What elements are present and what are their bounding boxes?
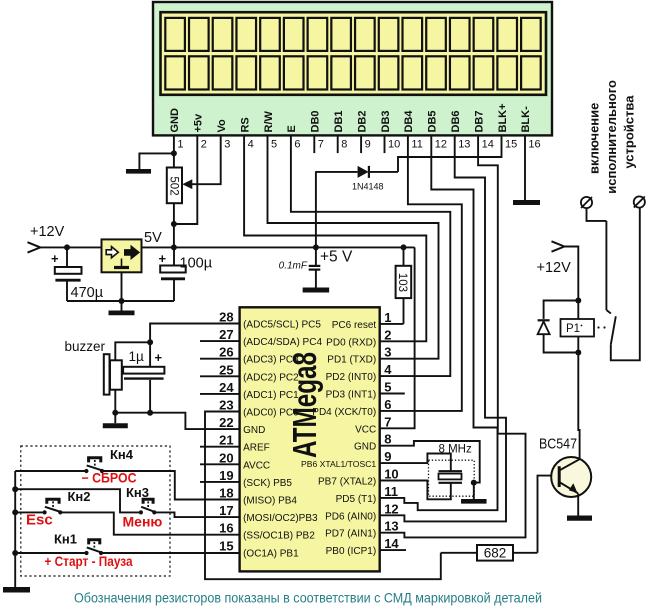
node 1u ground (147, 410, 153, 416)
svg-text:6: 6 (294, 139, 300, 151)
wire Kn3 to MCU pin17 (154, 512, 239, 517)
LCD module LCD1 outer body (153, 2, 552, 135)
capacitor C1 470u (51, 247, 104, 301)
svg-text:Кн1: Кн1 (54, 532, 77, 547)
switch Kn2 (Esc) (43, 499, 63, 514)
svg-text:PD3 (INT1): PD3 (INT1) (326, 390, 377, 401)
svg-text:5V: 5V (144, 230, 162, 246)
svg-text:28: 28 (219, 310, 233, 325)
node regulator ground (119, 298, 125, 304)
wire Kn1 to MCU pin15 (101, 552, 240, 554)
svg-text:14: 14 (482, 139, 494, 151)
relay contact (606, 208, 639, 360)
svg-text:AVCC: AVCC (243, 460, 270, 471)
svg-text:DB7: DB7 (473, 110, 485, 132)
svg-text:VCC: VCC (355, 424, 376, 435)
+12V input label (right) (537, 260, 572, 276)
svg-text:10: 10 (384, 467, 398, 482)
svg-text:15: 15 (505, 139, 517, 151)
svg-text:(ADC1) PC1: (ADC1) PC1 (243, 390, 299, 401)
caption about SMD resistor markings (74, 591, 542, 606)
wire BLK-: LCD pin16 to ground (524, 135, 526, 200)
svg-text:GND: GND (243, 425, 265, 436)
ground at LCD pin16 (513, 200, 540, 205)
ground under buzzer (103, 413, 128, 426)
transistor Q2 BC547 (551, 457, 591, 497)
svg-text:(ADC4/SDA) PC4: (ADC4/SDA) PC4 (243, 337, 322, 348)
node bus kn2 feed (12, 509, 18, 515)
LCD display panel (161, 12, 547, 95)
node rail/pot junction (171, 244, 177, 250)
pot wiper arrowhead (182, 179, 192, 189)
label 5V (144, 230, 162, 246)
label Kn4 (110, 447, 134, 462)
wire DB5: LCD pin12 to MCU PD5 pin11 (380, 135, 498, 510)
node bus kn1 feed (12, 550, 18, 556)
svg-text:P1: P1 (566, 323, 580, 335)
wire XTAL2 pin10 to crystal bottom (380, 481, 451, 500)
node relay bottom (575, 350, 581, 356)
ground at 0.1mF (303, 288, 330, 293)
svg-text:устройства: устройства (622, 95, 637, 169)
svg-text:103: 103 (396, 273, 408, 292)
connector chevron +12V left (28, 242, 41, 252)
wire Kn4 to MCU pin18 (102, 471, 240, 500)
svg-text:10: 10 (388, 139, 400, 151)
svg-text:PD2 (INT0): PD2 (INT0) (326, 372, 377, 383)
svg-text:GND: GND (169, 108, 181, 133)
resistor R3 682 leads (441, 552, 538, 554)
svg-text:RS: RS (239, 117, 251, 132)
node bus kn3 feed (12, 486, 18, 492)
wire +12V to regulator (40, 246, 101, 248)
svg-text:13: 13 (458, 139, 470, 151)
svg-text:20: 20 (219, 450, 233, 465)
LCD pin numbers 1-16 (177, 139, 540, 151)
svg-text:682: 682 (484, 545, 507, 560)
svg-text:12: 12 (435, 139, 447, 151)
wire +5V riser / DB0 column (315, 171, 317, 247)
switch Kn1 (Start-Pause) (84, 540, 103, 555)
svg-text:Кн3: Кн3 (126, 485, 149, 500)
svg-text:ATMega8: ATMega8 (286, 352, 323, 458)
wire +12V right to relay top (564, 247, 578, 301)
wire DB7: LCD pin14 to MCU PD7 pin13 (380, 135, 526, 537)
node crystal case ground (471, 480, 477, 486)
svg-text:27: 27 (219, 327, 233, 342)
wire LCD pin2 +5v (174, 135, 197, 224)
wire E: LCD pin6 to MCU PD2 pin4 (291, 135, 450, 376)
svg-text:исполнительного: исполнительного (604, 80, 619, 194)
svg-text:5: 5 (271, 139, 277, 151)
wire node to MCU pin28 (150, 324, 240, 343)
svg-text:Vo: Vo (216, 119, 228, 133)
wire DB1 stub (337, 135, 339, 153)
resistor R contrast 502 leads (173, 153, 175, 247)
svg-text:DB2: DB2 (356, 110, 368, 132)
wire DB2 stub (360, 135, 362, 153)
label buzzer (65, 339, 106, 354)
svg-text:+: + (51, 251, 59, 266)
diode D2 flyback (538, 320, 550, 334)
svg-text:15: 15 (219, 538, 233, 553)
node buzzer ground (112, 410, 118, 416)
node pot bottom / +5v pin2 junction (171, 221, 177, 227)
svg-text:BLK-: BLK- (520, 106, 532, 133)
svg-text:GND: GND (354, 442, 376, 453)
wire ground bus under regulator (67, 300, 174, 302)
label Menu (123, 514, 163, 530)
svg-text:13: 13 (384, 519, 398, 534)
switch Kn3 (Menu) (139, 499, 157, 514)
wire bus to Kn3 (15, 489, 141, 512)
svg-text:Кн2: Кн2 (68, 489, 91, 504)
ground of crystal case (461, 483, 487, 502)
dashed buttons enclosure (21, 446, 170, 576)
svg-text:DB4: DB4 (403, 110, 415, 133)
svg-text:DB6: DB6 (450, 110, 462, 132)
wire buzzer bottom to GND pin22 (115, 390, 239, 429)
svg-text:1: 1 (177, 139, 183, 151)
svg-text:PB7 (XTAL2): PB7 (XTAL2) (318, 477, 376, 488)
capacitor C3 0.1mF (279, 247, 321, 287)
MCU right pin numbers (384, 310, 399, 551)
svg-text:7: 7 (384, 414, 391, 429)
svg-text:Esc: Esc (26, 512, 53, 529)
wire Kn2 to MCU pin16 (60, 512, 239, 534)
label - SBROS (82, 471, 137, 486)
svg-text:7: 7 (318, 139, 324, 151)
wire bus to Kn2 (15, 511, 44, 513)
label +5 V (320, 249, 353, 266)
svg-text:(MISO) PB4: (MISO) PB4 (243, 496, 297, 507)
wire regulator pin to ground (121, 272, 123, 301)
vertical label: ustroystva (622, 95, 637, 169)
wire BLK+: LCD pin15 to diode cathode (398, 135, 502, 172)
svg-text:(ADC3) PC3: (ADC3) PC3 (243, 355, 299, 366)
op-amp U1 ATMega8 MCU body (240, 307, 380, 571)
switch Kn4 (SBROS) (84, 458, 104, 473)
svg-text:0.1mF: 0.1mF (279, 261, 308, 272)
ground of button bus (3, 587, 30, 593)
svg-text:6: 6 (384, 397, 391, 412)
svg-text:24: 24 (219, 380, 234, 395)
wire buzzer top to PC5 (115, 342, 150, 360)
svg-text:470µ: 470µ (71, 285, 104, 301)
MCU left pin labels (243, 320, 322, 560)
svg-text:25: 25 (219, 362, 233, 377)
svg-text:PC6 reset: PC6 reset (332, 320, 377, 331)
capacitor C4 1u (123, 342, 164, 412)
svg-text:(ADC0) PC0: (ADC0) PC0 (243, 408, 299, 419)
svg-text:21: 21 (219, 433, 233, 448)
node rail/DB0 column junction (313, 244, 319, 250)
svg-text:Меню: Меню (123, 514, 163, 530)
+12V input label (left) (30, 224, 65, 240)
node buzzer/1u/PC5 (147, 339, 153, 345)
wire base riser (538, 476, 554, 553)
svg-text:+: + (159, 251, 167, 266)
LCD pin name labels (169, 103, 532, 132)
svg-text:4: 4 (384, 362, 392, 377)
wire bus to Kn1 (15, 552, 86, 554)
wire R/W: LCD pin5 to MCU PD1 pin3 (268, 135, 439, 358)
svg-text:26: 26 (219, 345, 233, 360)
wire LCD pin3 Vo to wiper (189, 135, 221, 184)
wire MCU pin1 reset stub (380, 323, 404, 325)
svg-text:1N4148: 1N4148 (352, 182, 384, 192)
svg-text:9: 9 (365, 139, 371, 151)
svg-text:(MOSI/OC2)PB3: (MOSI/OC2)PB3 (243, 513, 318, 524)
svg-text:PB0 (ICP1): PB0 (ICP1) (326, 546, 377, 557)
wire emitter to ground (577, 493, 579, 515)
svg-text:100µ: 100µ (180, 256, 213, 272)
svg-text:+: + (155, 350, 163, 365)
wire bus to Kn4 (15, 470, 86, 472)
vertical label: ispolnitelnogo (604, 80, 619, 194)
capacitor C2 100u (159, 247, 213, 301)
svg-text:8: 8 (341, 139, 347, 151)
svg-text:+ Старт - Пауза: + Старт - Пауза (45, 553, 133, 569)
svg-text:22: 22 (219, 415, 233, 430)
resistor 502 (contrast pot) body (167, 168, 182, 204)
wire regulator output to +5V rail (142, 246, 415, 248)
voltage regulator U2 5V (yellow box) (102, 239, 142, 272)
MCU pin14 stub (380, 549, 406, 551)
svg-text:(SS/OC1B) PB2: (SS/OC1B) PB2 (243, 531, 315, 542)
label Kn3 (126, 485, 149, 500)
wire RS: LCD pin4 to MCU PD0 pin2 (244, 135, 426, 341)
svg-text:16: 16 (528, 139, 540, 151)
svg-text:E: E (286, 125, 298, 132)
svg-text:DB0: DB0 (310, 110, 322, 132)
label + Start - Pauza (45, 553, 133, 569)
svg-text:PD1 (TXD): PD1 (TXD) (327, 355, 376, 366)
svg-text:buzzer: buzzer (65, 339, 106, 354)
terminal circle left (581, 197, 592, 208)
wire DB6: LCD pin13 to MCU PD6 pin12 (380, 135, 506, 521)
svg-text:+12V: +12V (30, 224, 65, 240)
node rail/103 junction (401, 244, 407, 250)
svg-text:Кн4: Кн4 (110, 447, 134, 462)
wire XTAL1 pin9 to crystal top (380, 454, 451, 472)
svg-text:BC547: BC547 (539, 437, 577, 453)
ground at emitter (567, 515, 592, 520)
svg-text:+5 V: +5 V (320, 249, 353, 266)
svg-text:12: 12 (384, 501, 398, 516)
svg-text:DB5: DB5 (427, 110, 439, 132)
svg-text:AREF: AREF (243, 443, 270, 454)
wire relay coil vertical (577, 301, 579, 353)
svg-text:5: 5 (384, 380, 391, 395)
diode D1 1N4148 (352, 166, 384, 192)
svg-text:Обозначения резисторов показан: Обозначения резисторов показаны в соотве… (74, 591, 542, 606)
svg-text:PB6 XTAL1/TOSC1: PB6 XTAL1/TOSC1 (301, 459, 376, 469)
node 470u tap (64, 244, 70, 250)
connector chevron +12V right (552, 241, 565, 251)
label Esc (26, 512, 53, 529)
MCU left pin numbers (219, 310, 234, 554)
svg-text:(OC1A) PB1: (OC1A) PB1 (243, 548, 299, 559)
svg-text:PD0 (RXD): PD0 (RXD) (326, 337, 376, 348)
svg-text:PD7 (AIN1): PD7 (AIN1) (325, 529, 376, 540)
crystal shield dotted box (429, 460, 475, 496)
svg-text:1: 1 (384, 310, 391, 325)
wire flyback diode branch (544, 301, 579, 353)
svg-text:8: 8 (384, 432, 391, 447)
svg-text:3: 3 (384, 345, 391, 360)
resistor R3 682 body (477, 545, 513, 561)
svg-text:14: 14 (384, 536, 399, 551)
svg-text:9: 9 (384, 449, 391, 464)
vertical label: vklyuchenie (587, 103, 602, 174)
buzzer BZ1 body (104, 354, 122, 394)
svg-text:− СБРОС: − СБРОС (82, 471, 137, 486)
svg-text:DB1: DB1 (333, 110, 345, 132)
svg-text:16: 16 (219, 521, 233, 536)
label Kn2 (68, 489, 91, 504)
wire diode anode to +5V riser (316, 171, 398, 173)
MCU right pin labels (301, 320, 376, 557)
svg-text:PD5 (T1): PD5 (T1) (336, 494, 377, 505)
svg-text:4: 4 (248, 139, 254, 151)
label BC547 (539, 437, 577, 453)
svg-text:(ADC5/SCL) PC5: (ADC5/SCL) PC5 (243, 320, 321, 331)
svg-text:+5v: +5v (193, 113, 205, 133)
ground near LCD pin1 (126, 169, 151, 174)
svg-text:R/W: R/W (263, 111, 275, 133)
MCU pin5 stub (380, 393, 405, 395)
wire VCC rail to MCU pin7 (380, 247, 415, 428)
svg-text:PD6 (AIN0): PD6 (AIN0) (325, 511, 376, 522)
svg-text:включение: включение (587, 103, 602, 174)
terminal circle right (634, 196, 645, 207)
svg-text:23: 23 (219, 398, 233, 413)
svg-text:2: 2 (201, 139, 207, 151)
svg-text:PD4 (XCK/T0): PD4 (XCK/T0) (312, 407, 376, 418)
label Kn1 (54, 532, 77, 547)
relay P1 coil box (561, 319, 595, 337)
wire PC0 pin23 to base resistor (205, 412, 441, 580)
svg-text:DB3: DB3 (380, 110, 392, 132)
wire DB3 stub (384, 135, 386, 153)
label 8 MHz (439, 444, 472, 456)
ground main (regulator) (109, 301, 135, 313)
wire to ground from pin1 (139, 153, 174, 169)
svg-text:BLK+: BLK+ (497, 103, 509, 132)
wire LCD pin1 GND stub (173, 135, 175, 153)
wire DB4: LCD pin11 to MCU PD4 pin6 (380, 135, 462, 411)
mechanical link dots (597, 326, 605, 328)
MCU left pin stubs (200, 341, 240, 482)
svg-text:2: 2 (384, 327, 391, 342)
node junction pin1/ground/pot (171, 150, 177, 156)
wire MCU pin8 GND to crystal case (380, 441, 480, 483)
svg-text:+12V: +12V (537, 260, 572, 276)
svg-text:1µ: 1µ (129, 349, 145, 364)
resistor R2 103 (reset pullup) (396, 247, 412, 324)
svg-text:502: 502 (167, 176, 179, 195)
wire left terminal to contact (587, 208, 607, 221)
svg-text:17: 17 (219, 503, 233, 518)
svg-text:(ADC2) PC2: (ADC2) PC2 (243, 372, 299, 383)
wire DB0 stub (unconnected) (313, 135, 315, 153)
wire collector to relay (578, 353, 579, 460)
left ground bus of buttons (14, 471, 16, 587)
svg-text:19: 19 (219, 468, 233, 483)
crystal Q1 8MHz body (439, 471, 463, 483)
svg-text:11: 11 (411, 139, 422, 151)
svg-text:(SCK) PB5: (SCK) PB5 (243, 478, 292, 489)
node relay top (575, 298, 581, 304)
svg-text:11: 11 (384, 484, 398, 499)
svg-text:18: 18 (219, 486, 233, 501)
svg-text:3: 3 (224, 139, 230, 151)
